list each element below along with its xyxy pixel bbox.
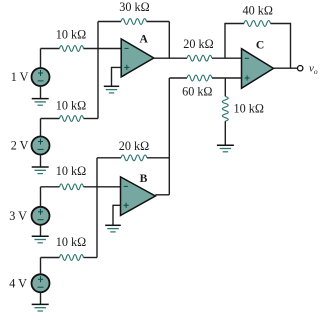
resistor R1 10 kOhm (1 V input)	[41, 27, 122, 51]
output terminal node vo	[298, 63, 318, 77]
svg-text:C: C	[256, 39, 264, 52]
op-amp B	[121, 172, 156, 216]
ground under V1	[32, 86, 49, 105]
resistor R9 40 kOhm (feedback of C)	[225, 4, 291, 69]
resistor R8 20 kOhm (feedback of B)	[97, 139, 169, 161]
resistor R6 10 kOhm (4 V input)	[41, 235, 98, 260]
resistor R3 10 kOhm (3 V input)	[41, 164, 121, 190]
wire: A feedback drop to output node	[168, 22, 170, 59]
wire: output of C to terminal	[274, 67, 298, 69]
wire V1 top to R1	[40, 49, 42, 69]
resistor R10 60 kOhm (B output to C noninverting input)	[169, 75, 241, 99]
svg-text:1 V: 1 V	[11, 70, 29, 84]
svg-text:20 kΩ: 20 kΩ	[119, 139, 149, 153]
svg-text:30 kΩ: 30 kΩ	[119, 0, 149, 14]
svg-text:vo: vo	[309, 63, 318, 77]
wire + ground at noninverting input of A	[104, 67, 121, 93]
voltage source V1 (1 V)	[11, 68, 50, 86]
ground under V2	[32, 155, 49, 174]
svg-text:4 V: 4 V	[9, 276, 27, 290]
svg-text:2 V: 2 V	[11, 139, 29, 153]
svg-text:10 kΩ: 10 kΩ	[56, 27, 86, 41]
svg-text:10 kΩ: 10 kΩ	[234, 101, 264, 115]
svg-text:10 kΩ: 10 kΩ	[56, 164, 86, 178]
wire: output of B	[155, 194, 169, 196]
resistor R7 20 kOhm (A output to C inverting input)	[183, 37, 241, 61]
voltage source V3 (3 V)	[9, 207, 49, 225]
svg-text:B: B	[140, 172, 148, 185]
svg-text:20 kΩ: 20 kΩ	[183, 37, 213, 51]
resistor R2 10 kOhm (2 V input)	[41, 99, 99, 122]
wire + ground at noninverting input of B	[105, 205, 121, 232]
svg-text:60 kΩ: 60 kΩ	[182, 85, 212, 99]
ground under V3	[32, 225, 49, 243]
op-amp A	[121, 32, 154, 77]
wire: output of A	[154, 57, 187, 59]
ground under V4	[32, 292, 49, 311]
wire V2 top to R2	[40, 119, 42, 137]
resistor R5 30 kOhm (feedback of A)	[98, 0, 169, 24]
wire V3 top to R3	[40, 187, 42, 207]
svg-text:10 kΩ: 10 kΩ	[56, 99, 86, 113]
voltage source V2 (2 V)	[11, 137, 50, 155]
svg-text:3 V: 3 V	[9, 209, 27, 223]
op-amp C	[242, 39, 274, 89]
voltage source V4 (4 V)	[9, 274, 49, 292]
node: summing junction bus of op-amp B (vertical wire)	[96, 158, 98, 258]
wire V4 top to R6	[40, 258, 42, 275]
svg-text:40 kΩ: 40 kΩ	[243, 4, 273, 18]
ground under R11	[217, 145, 234, 152]
resistor R11 10 kOhm (C noninverting input to ground)	[222, 78, 263, 145]
svg-text:A: A	[140, 32, 149, 45]
svg-text:10 kΩ: 10 kΩ	[56, 235, 86, 249]
wire: B output rise to 60 kOhm row	[168, 78, 170, 195]
node: summing junction bus of op-amp A (vertical wire)	[97, 22, 99, 119]
